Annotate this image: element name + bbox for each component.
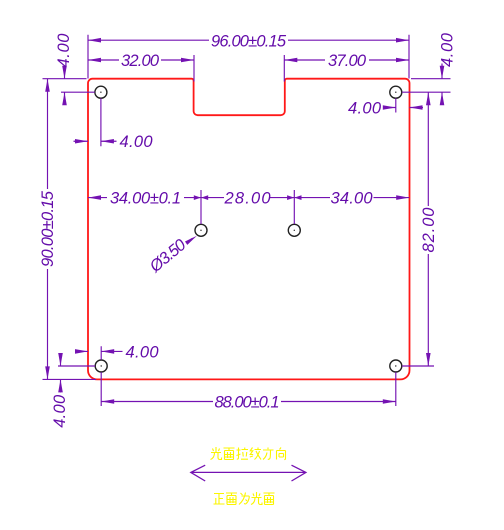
dimension 28.00 <box>201 190 294 224</box>
leader Ø3.50 <box>185 236 197 245</box>
char 光2 <box>251 492 262 505</box>
hole H5 bottom-left <box>95 360 107 372</box>
dimension 4.00 top-left vertical <box>43 66 95 106</box>
svg-text:4.00: 4.00 <box>126 343 160 361</box>
dimension 88.00±0.1 <box>101 372 396 406</box>
char 面2 <box>226 493 237 505</box>
note text 光面拉纹方向 (yellow) <box>211 447 286 460</box>
dimension 82.00 <box>402 92 434 366</box>
hole H3 middle-left <box>195 224 207 236</box>
dimension 4.00 top-right hole offset <box>383 98 423 112</box>
dimension 4.00 top-left hole offset <box>74 98 117 146</box>
dimension 34.00±0.1 <box>88 190 201 224</box>
char 拉 <box>237 448 249 460</box>
svg-text:88.00±0.1: 88.00±0.1 <box>215 393 280 411</box>
char 为 <box>239 493 249 505</box>
svg-text:37.00: 37.00 <box>328 52 367 70</box>
svg-text:4.00: 4.00 <box>51 394 69 428</box>
svg-text:4.00: 4.00 <box>120 133 154 151</box>
char 方 <box>263 448 274 460</box>
char 正 <box>214 494 225 505</box>
svg-text:4.00: 4.00 <box>55 33 73 68</box>
dimension 96.00±0.15 <box>88 35 409 79</box>
dimension 34.00 right <box>294 195 409 200</box>
direction double arrow <box>191 465 306 481</box>
svg-text:82.00: 82.00 <box>420 207 438 253</box>
note text 正面为光面 (yellow) <box>214 492 275 505</box>
dimension 32.00 <box>88 55 194 82</box>
board outline <box>88 79 410 380</box>
char 向 <box>277 448 286 460</box>
dimension 4.00 bottom vertical <box>58 353 63 393</box>
svg-text:34.00: 34.00 <box>331 189 374 207</box>
hole H1 top-left <box>95 86 107 98</box>
char 纹 <box>250 448 261 460</box>
svg-text:96.00±0.15: 96.00±0.15 <box>211 32 287 50</box>
char 光 <box>211 447 222 460</box>
dimension 4.00 bottom-left hole offset <box>58 346 123 366</box>
dimension 90.00±0.15 <box>43 79 97 380</box>
hole H2 top-right <box>390 86 402 98</box>
svg-text:34.00±0.1: 34.00±0.1 <box>110 189 181 207</box>
svg-text:Ø3.50: Ø3.50 <box>146 235 190 276</box>
dimension 37.00 <box>284 55 409 82</box>
hole H6 bottom-right <box>390 360 402 372</box>
char 面3 <box>264 493 275 505</box>
hole H4 middle-right <box>288 224 300 236</box>
svg-text:4.00: 4.00 <box>439 32 457 67</box>
svg-text:28.00: 28.00 <box>224 189 272 207</box>
svg-text:90.00±0.15: 90.00±0.15 <box>39 190 57 267</box>
dimension 4.00 top-right vertical <box>402 64 451 106</box>
svg-text:32.00: 32.00 <box>121 52 160 70</box>
svg-text:4.00: 4.00 <box>348 99 382 117</box>
char 面 <box>224 448 235 460</box>
